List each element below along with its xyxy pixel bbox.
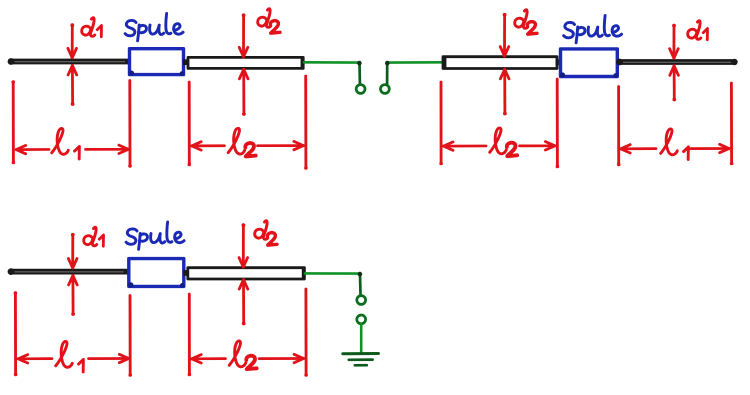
extension line l2 right, bottom xyxy=(304,289,308,377)
label d1, bottom xyxy=(84,227,104,246)
dimension arrow d2, top-right xyxy=(500,13,509,116)
extension line l2 left, bottom xyxy=(188,294,192,376)
wire, green feed, top-left xyxy=(304,61,362,84)
connector stub thick rod to coil, top-right xyxy=(556,59,562,65)
connector stub coil to thick rod, top-left xyxy=(183,59,189,65)
extension line l1 left, top-right xyxy=(617,87,621,167)
extension line l2 right, top-left xyxy=(304,76,308,170)
antenna thick rod, diameter d2 length l2, top-left xyxy=(188,57,303,68)
dimension arrow d2, bottom xyxy=(239,223,248,325)
extension line l1 right, top-right xyxy=(730,83,734,165)
label Spule, bottom xyxy=(126,222,184,249)
label l2, bottom xyxy=(229,341,256,369)
thick rod end cap, bottom xyxy=(302,267,305,279)
label l2, top-right xyxy=(490,128,517,156)
thick rod end cap, top-right xyxy=(443,56,446,68)
antenna thin rod, diameter d1, top-right xyxy=(616,59,738,66)
dimension arrow l1, top-left xyxy=(16,145,128,154)
ground symbol xyxy=(343,354,379,366)
extension line l1 right, bottom xyxy=(128,296,132,377)
wire, green feed, top-right xyxy=(385,61,443,84)
label d2, top-left xyxy=(258,9,280,33)
antenna thick rod, diameter d2 length l2, bottom xyxy=(188,268,305,279)
dimension arrow l1, bottom xyxy=(18,354,129,363)
label d2, top-right xyxy=(515,10,537,34)
banana plug ring, top-left feed xyxy=(356,85,365,94)
extension line l2 right, top-right xyxy=(556,79,560,168)
label l1, top-left xyxy=(52,128,80,158)
antenna thin rod, diameter d1, bottom xyxy=(8,268,129,275)
dimension arrow d1, top-left xyxy=(68,23,77,106)
coil "Spule", top-left xyxy=(129,49,185,76)
banana plug ring, top-right feed xyxy=(381,85,390,94)
label l2, top-left xyxy=(228,128,255,156)
dimension arrow l2, bottom xyxy=(192,354,304,363)
dimension arrow l2, top-right xyxy=(444,142,555,151)
dimension arrow d1, top-right xyxy=(670,24,679,102)
extension line l1 left, bottom xyxy=(14,291,18,376)
coil "Spule", top-right xyxy=(560,49,618,78)
dimension arrow d2, top-left xyxy=(239,13,248,116)
dimension arrow d1, bottom xyxy=(68,233,77,316)
banana plug ring, bottom upper xyxy=(357,296,366,305)
label Spule, top-right xyxy=(564,16,622,43)
label d1, top-left xyxy=(82,18,102,37)
wire, green to ground, bottom xyxy=(360,324,363,351)
antenna thick rod, diameter d2 length l2, top-right xyxy=(443,57,557,69)
wire, green feed, bottom xyxy=(305,272,362,295)
dimension arrow l1, top-right xyxy=(621,144,729,153)
label Spule, top-left xyxy=(125,14,183,41)
antenna thin rod, diameter d1, top-left xyxy=(8,58,130,65)
label d2, bottom xyxy=(255,221,277,245)
coil "Spule", bottom xyxy=(128,259,185,288)
label l1, bottom xyxy=(56,341,84,371)
extension line l2 left, top-right xyxy=(439,82,443,165)
thick rod end cap, top-left xyxy=(301,57,304,69)
extension line l2 left, top-left xyxy=(188,82,192,166)
banana plug ring, bottom lower xyxy=(357,315,366,324)
dimension arrow l2, top-left xyxy=(192,141,304,150)
label l1, top-right xyxy=(661,129,689,159)
extension line l1 left, top-left xyxy=(11,80,15,164)
connector stub coil to thick rod, bottom xyxy=(183,270,189,276)
label d1, top-right xyxy=(688,21,708,40)
extension line l1 right, top-left xyxy=(128,81,132,168)
